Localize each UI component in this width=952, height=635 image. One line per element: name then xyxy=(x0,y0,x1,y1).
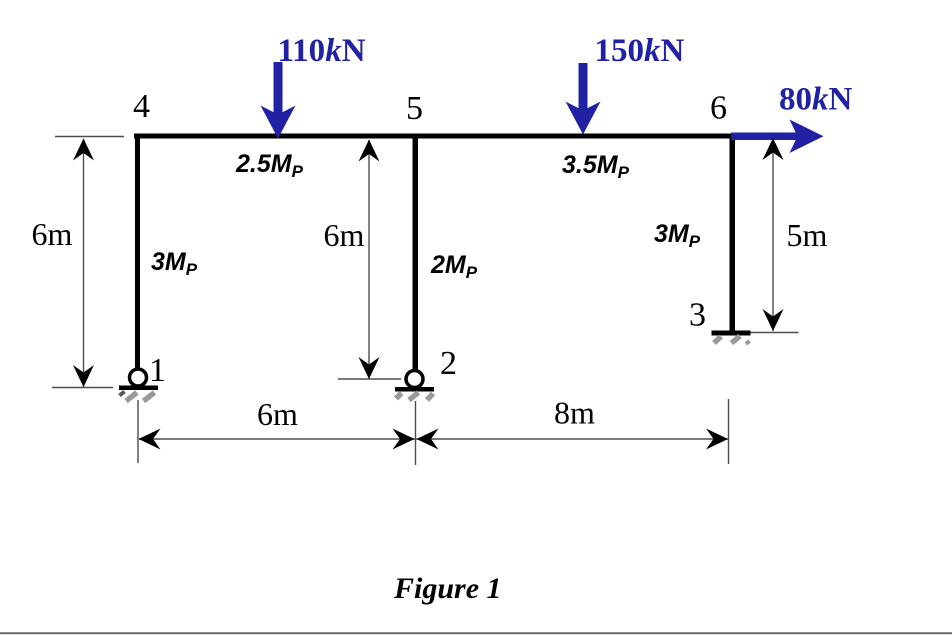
svg-text:4: 4 xyxy=(133,88,150,125)
svg-text:2.5MP: 2.5MP xyxy=(235,150,304,181)
pin support 2 xyxy=(395,371,434,401)
fixed support 3 xyxy=(712,331,751,345)
svg-text:6m: 6m xyxy=(32,216,73,252)
dimension 6m left vertical xyxy=(52,137,124,388)
column 5-2 xyxy=(413,134,419,371)
svg-text:8m: 8m xyxy=(554,395,595,431)
load arrow 110kN xyxy=(261,62,296,139)
svg-text:80kN: 80kN xyxy=(779,82,853,118)
svg-text:5: 5 xyxy=(406,90,423,127)
column 4-1 xyxy=(135,134,140,369)
svg-text:1: 1 xyxy=(149,352,166,389)
dimension 5m right vertical xyxy=(751,139,799,333)
svg-text:6m: 6m xyxy=(324,217,365,253)
svg-text:2MP: 2MP xyxy=(430,251,478,282)
svg-text:5m: 5m xyxy=(787,217,828,253)
svg-text:150kN: 150kN xyxy=(595,33,685,69)
svg-text:Figure 1: Figure 1 xyxy=(393,572,502,605)
load arrow 150kN xyxy=(566,63,601,135)
svg-text:6: 6 xyxy=(710,90,727,127)
load arrow 80kN xyxy=(731,120,824,154)
beam 4-5-6 xyxy=(134,134,732,139)
bottom border line xyxy=(0,632,952,634)
svg-text:3.5MP: 3.5MP xyxy=(562,151,630,182)
pin support 1 xyxy=(119,369,158,401)
svg-text:6m: 6m xyxy=(257,396,298,432)
svg-text:3MP: 3MP xyxy=(654,220,701,251)
svg-text:3: 3 xyxy=(689,297,706,334)
column 6-3 xyxy=(730,134,736,333)
svg-text:110kN: 110kN xyxy=(278,33,366,69)
svg-text:2: 2 xyxy=(440,345,457,382)
dimension bottom horizontal 6m and 8m xyxy=(138,399,729,465)
dimension 6m middle vertical xyxy=(338,140,401,379)
svg-text:3MP: 3MP xyxy=(151,248,198,279)
